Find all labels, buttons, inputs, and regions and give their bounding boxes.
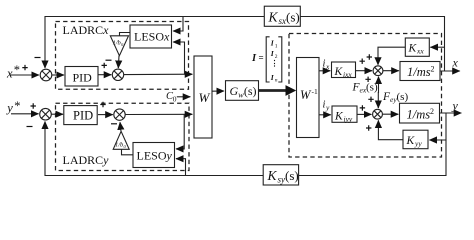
svg-text:yy: yy bbox=[414, 139, 422, 148]
wire: Fex disturbance arrow up into junction bbox=[378, 77, 380, 93]
wire: LESOx output to 1/b0 triangle bbox=[120, 33, 131, 36]
wire: y* input arrow bbox=[11, 113, 39, 115]
LADRCx dashed box bbox=[56, 22, 189, 90]
block: LESOx bbox=[130, 25, 172, 48]
node: summing junction after PID (y) bbox=[114, 109, 125, 120]
gain: 1/b0 triangle (y) bbox=[113, 131, 129, 149]
block: Ksy(s) bbox=[263, 165, 298, 185]
svg-text:W: W bbox=[300, 88, 312, 102]
svg-text:*: * bbox=[14, 99, 20, 113]
svg-text:0: 0 bbox=[173, 95, 177, 104]
wire: u_y line from junction to W bbox=[125, 113, 192, 115]
wire: Kiyy to y sum junction bbox=[357, 113, 371, 115]
svg-text:iyy: iyy bbox=[344, 115, 353, 124]
block: 1/ms^2 (x) bbox=[400, 62, 440, 81]
sign + Fex disturbance to x force junction bbox=[365, 77, 370, 82]
svg-text:0: 0 bbox=[124, 144, 127, 149]
plant dashed box bbox=[289, 34, 442, 158]
vector brackets bbox=[266, 37, 269, 82]
sign - sensor feedback at y* junction bbox=[27, 126, 33, 128]
block: PID (y channel) bbox=[64, 106, 97, 125]
wire: u_x line from junction to W bbox=[124, 73, 193, 75]
sign + Kxx feedback to x force junction bbox=[367, 54, 372, 59]
wire: junction to 1/ms^2 (y) bbox=[382, 113, 398, 115]
block: 1/ms^2 (y) bbox=[400, 103, 440, 123]
wire: tap from top line down into LESOx input 1 bbox=[173, 17, 183, 32]
wire: PID to summing junction 2 bbox=[98, 74, 111, 76]
wire: x tap into Kxx bbox=[430, 46, 444, 48]
svg-text:1: 1 bbox=[275, 43, 278, 49]
svg-text:K: K bbox=[406, 135, 416, 147]
gain: 1/b0 triangle (x) bbox=[110, 36, 128, 56]
svg-text:(s): (s) bbox=[286, 9, 300, 24]
node: summing junction after PID (x) bbox=[112, 69, 123, 80]
sign - LESOx 1/b0 at x summing junction bbox=[106, 59, 112, 61]
svg-text:K: K bbox=[268, 9, 279, 24]
wire: y output arrow bbox=[440, 112, 462, 114]
sign + at y* junction input bbox=[31, 103, 36, 108]
block: Ksx(s) bbox=[264, 6, 300, 26]
svg-text:x: x bbox=[6, 67, 13, 81]
svg-text:LESOx: LESOx bbox=[134, 30, 170, 44]
node: y force summing junction bbox=[373, 109, 383, 119]
svg-text:K: K bbox=[334, 66, 344, 78]
wire: thick current-vector arrow Gw to W^-1 bbox=[259, 89, 287, 92]
wire: u_y tap down to LESOy input 1 bbox=[176, 114, 184, 148]
node: y* summing junction bbox=[40, 108, 52, 120]
svg-text:ixx: ixx bbox=[343, 70, 352, 79]
svg-text:(s): (s) bbox=[397, 91, 409, 103]
block: LESOy bbox=[133, 143, 175, 168]
svg-text:*: * bbox=[14, 63, 20, 77]
block: Kxx bbox=[405, 38, 429, 56]
svg-text:Gw(s): Gw(s) bbox=[230, 84, 257, 100]
svg-text:1/ms: 1/ms bbox=[407, 65, 431, 79]
sign + at x* junction input bbox=[22, 65, 27, 70]
wire: x* junction to PID bbox=[52, 74, 64, 76]
svg-text:2: 2 bbox=[430, 107, 434, 116]
wire: Kixx to x sum junction bbox=[356, 70, 373, 72]
wire: PID to summing junction 2 (y) bbox=[98, 114, 113, 116]
wire: LESOy output to triangle bbox=[122, 150, 134, 155]
wire: x* input arrow bbox=[11, 74, 40, 76]
svg-text:1/ms: 1/ms bbox=[407, 108, 431, 122]
svg-text:-1: -1 bbox=[312, 87, 318, 96]
sign - LESOy 1/b0 at y summing junction bbox=[111, 123, 117, 125]
svg-text:2: 2 bbox=[431, 65, 435, 74]
wire: Fey disturbance arrow down into junction bbox=[377, 92, 379, 108]
svg-text:LESOy: LESOy bbox=[137, 148, 173, 162]
block: Kixx bbox=[332, 62, 356, 78]
svg-text:⋮: ⋮ bbox=[271, 59, 279, 68]
wire: tap from bottom line up into LESOy input 2 bbox=[176, 159, 186, 176]
wire: C0 arrow into W bbox=[177, 96, 191, 98]
wire: Kxx feedback into junction top bbox=[378, 47, 405, 65]
svg-text:K: K bbox=[408, 43, 418, 55]
svg-text:x: x bbox=[325, 62, 330, 71]
sign + at PID y output bbox=[100, 102, 105, 107]
block: Gw(s) bbox=[226, 81, 259, 101]
wire: i_y line to Kiyy bbox=[319, 114, 331, 116]
sign + Kixx input to x force junction bbox=[360, 59, 365, 64]
sign + Kiyy input to y force junction bbox=[360, 105, 365, 110]
svg-text:K: K bbox=[267, 168, 278, 183]
wire: Ksy output line to y* junction (bottom-left) bbox=[45, 122, 263, 176]
sign + Fey disturbance to y force junction bbox=[368, 97, 373, 102]
block: W^-1 bbox=[297, 58, 320, 138]
svg-text:W: W bbox=[199, 90, 211, 105]
svg-text:PID: PID bbox=[73, 109, 93, 123]
wire: Kyy feedback into junction bottom bbox=[378, 120, 403, 139]
svg-text:I: I bbox=[251, 53, 257, 64]
wire: u_x tap up to LESOx input 2 bbox=[173, 42, 185, 74]
svg-text:K: K bbox=[334, 111, 344, 123]
block: PID (x channel) bbox=[65, 67, 98, 87]
wire: triangle to summing junction (minus) bbox=[117, 56, 120, 68]
block: W bbox=[194, 56, 212, 138]
svg-text:sx: sx bbox=[279, 16, 287, 26]
svg-text:y: y bbox=[452, 99, 459, 113]
block: Kiyy bbox=[332, 106, 357, 122]
svg-text:LADRCy: LADRCy bbox=[63, 153, 110, 167]
wire: junction to 1/ms^2 bbox=[383, 70, 399, 72]
svg-text:(s): (s) bbox=[285, 168, 299, 183]
wire: x output arrow bbox=[440, 70, 460, 72]
node: x force summing junction bbox=[373, 66, 383, 76]
svg-text:x: x bbox=[452, 56, 459, 70]
sign + Kyy feedback to y force junction bbox=[366, 125, 371, 130]
sign - sensor feedback at x* junction bbox=[35, 57, 41, 59]
svg-text:PID: PID bbox=[73, 70, 93, 84]
svg-text:xx: xx bbox=[416, 47, 424, 56]
svg-text:=: = bbox=[259, 53, 264, 63]
LADRCy dashed box bbox=[56, 103, 190, 170]
wire: y* junction to PID bbox=[51, 113, 63, 115]
wire: i_x line to Kixx bbox=[319, 70, 330, 72]
block: Kyy bbox=[403, 130, 428, 149]
svg-text:n: n bbox=[275, 78, 278, 84]
wire: Ksx output line to x* junction (top-left horizontal) bbox=[45, 17, 264, 69]
svg-text:y: y bbox=[5, 101, 13, 115]
wire: x output up to Ksx input (top-right) bbox=[301, 17, 445, 72]
sign + at PID x output bbox=[102, 63, 107, 68]
svg-text:LADRCx: LADRCx bbox=[63, 23, 110, 37]
svg-text:sy: sy bbox=[278, 174, 286, 184]
svg-text:(s): (s) bbox=[366, 82, 378, 94]
svg-text:y: y bbox=[325, 103, 330, 112]
node: x* summing junction bbox=[40, 69, 52, 81]
wire: W to Gw(s) bbox=[212, 90, 224, 92]
wire: y tap into Kyy bbox=[429, 139, 446, 141]
wire: y output down to Ksy input (bottom-right) bbox=[299, 113, 446, 176]
wire: triangle to summing junction (y, minus) bbox=[120, 122, 121, 131]
